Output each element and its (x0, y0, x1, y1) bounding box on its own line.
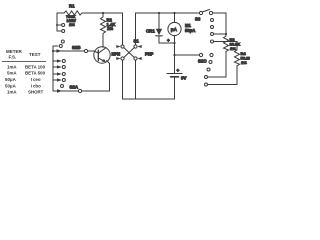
switch S1 BL contact (121, 57, 124, 60)
wire top-left rail segment (57, 12, 123, 14)
svg-text:BETA 100: BETA 100 (25, 65, 46, 70)
svg-text:5mA: 5mA (7, 71, 17, 76)
wire bottom return rail (123, 98, 175, 100)
switch S2 left contact row 2 (53, 66, 57, 68)
contact circle (62, 30, 65, 33)
svg-text:+: + (177, 68, 180, 73)
wire S2B wiper to base (53, 50, 94, 52)
switch S1 wiper arrow right top (137, 45, 141, 48)
wire stub to contact (57, 24, 62, 26)
node junction upper contact (56, 24, 58, 26)
wire bottom rail S2A (53, 90, 110, 92)
switch S1 BR contact (134, 57, 137, 60)
wire left lower bus vertical (52, 46, 54, 91)
wire S1 TR up (135, 13, 137, 45)
battery B1 lead bottom (174, 78, 176, 99)
svg-text:1%: 1% (241, 60, 247, 65)
svg-text:BETA 500: BETA 500 (25, 71, 46, 76)
resistor R3 (right upper) (224, 36, 229, 77)
diode CR1 lead top (158, 13, 160, 29)
transistor base lead (94, 51, 98, 53)
meter M1 lead bottom (174, 36, 176, 55)
meter M1 circle (168, 22, 181, 35)
diode CR1 lead bottom (159, 36, 175, 43)
transistor Q1 circle (94, 47, 110, 63)
contact circle S2C left (199, 53, 202, 56)
resistor R4 (right lower) (235, 50, 240, 85)
wire to top-right corner (213, 13, 226, 36)
switch S3 blade (202, 10, 209, 13)
diode CR1 triangle (156, 29, 162, 35)
node battery junction (173, 54, 175, 56)
svg-text:1%: 1% (69, 22, 75, 27)
switch S2C contact 1 (211, 19, 214, 22)
svg-text:S2B: S2B (72, 45, 81, 50)
meter M1 lead top (174, 13, 176, 22)
svg-text:METER: METER (6, 49, 23, 54)
svg-text:50μA: 50μA (185, 28, 195, 33)
switch S1 TR contact (134, 45, 137, 48)
switch S3 contact right (209, 11, 212, 14)
svg-text:CR1: CR1 (146, 29, 155, 34)
transistor base bar (97, 50, 99, 61)
battery B1 lead top (174, 55, 176, 73)
switch S2C contact 8 (205, 83, 208, 86)
svg-text:S1: S1 (134, 39, 140, 44)
switch S2C contact 5 (209, 61, 212, 64)
node R3 top junction (102, 12, 104, 14)
svg-text:50μA: 50μA (5, 84, 17, 89)
battery B1 long plate (167, 73, 182, 75)
diode CR1 bar (156, 35, 162, 37)
wire stub to contact (57, 30, 62, 32)
svg-text:TEST: TEST (29, 52, 41, 57)
switch S2C contact 4 (211, 40, 214, 43)
switch S2C contact 6 (207, 68, 210, 71)
svg-text:1mA: 1mA (7, 90, 17, 95)
switch S1 wiper arrow left top (116, 45, 120, 48)
contact circle S2C right (210, 53, 213, 56)
node diode junction (173, 42, 175, 44)
wire emitter down (107, 61, 110, 92)
wiper arrow S2A (57, 89, 62, 92)
switch S2 left contact row 3 (53, 73, 57, 75)
switch S3 contact left (199, 11, 202, 14)
node wiper junction (52, 50, 54, 52)
svg-text:SHORT: SHORT (28, 90, 44, 95)
wire S2C wiper (175, 54, 200, 56)
switch S1 cross diagonal 1 (124, 48, 135, 58)
wire S1 BR down (135, 60, 137, 99)
switch S1 wiper arrow right bottom (137, 57, 141, 60)
svg-text:PNP: PNP (145, 52, 154, 57)
svg-text:R1: R1 (69, 4, 75, 9)
transistor emitter (98, 58, 105, 62)
svg-text:S2A: S2A (70, 84, 79, 89)
contact circle S2A (78, 89, 81, 92)
svg-text:I ceo: I ceo (31, 77, 41, 82)
wire left upper vertical (56, 13, 58, 31)
svg-text:50μA: 50μA (5, 77, 17, 82)
resistor R1 (64, 11, 82, 15)
switch S1 cross diagonal 2 (124, 48, 135, 58)
emitter arrowhead (102, 59, 106, 62)
node meter top (173, 12, 175, 14)
wire R3 bottom to contact7 (208, 76, 226, 78)
svg-text:9V: 9V (181, 76, 186, 81)
svg-text:+: + (167, 38, 170, 43)
wire top rail right segment (136, 12, 200, 14)
wire contact3 to R3 (214, 33, 226, 35)
contact circle row 5 (61, 85, 64, 88)
node diode top (158, 12, 160, 14)
contact circle (62, 24, 65, 27)
node contact3 junction (225, 33, 227, 35)
svg-text:I cbo: I cbo (31, 84, 41, 89)
transistor collector (98, 48, 105, 53)
wire stub top of lower bus (53, 45, 58, 47)
switch S1 TL contact (121, 45, 124, 48)
switch S2 left contact row 4 (53, 79, 57, 81)
contact circle on base wire (84, 49, 87, 52)
contact circle (61, 40, 64, 43)
switch S2 left contact row 1 (53, 60, 57, 62)
wire S1 TL up (122, 13, 124, 45)
switch S1 wiper arrow left bottom (116, 57, 120, 60)
switch S2C contact 2 (211, 26, 214, 29)
svg-text:S2C: S2C (198, 59, 207, 64)
wire contact4 to R4 (214, 42, 237, 51)
resistor R2 (collector, vertical) (101, 13, 106, 47)
switch S2C contact 7 (205, 76, 208, 79)
svg-text:NPN: NPN (112, 52, 121, 57)
svg-text:S3: S3 (195, 17, 201, 22)
svg-text:1%: 1% (230, 46, 236, 51)
svg-text:F.S.: F.S. (9, 55, 17, 60)
svg-text:μA: μA (171, 27, 178, 32)
svg-text:1%: 1% (107, 26, 113, 31)
wire S1 BL down (122, 60, 124, 99)
wiper arrow S2B (57, 49, 62, 52)
svg-text:1mA: 1mA (7, 65, 17, 70)
wire R4 bottom to contact8 (208, 84, 237, 86)
contact circle (59, 45, 62, 48)
battery B1 short plate (171, 76, 179, 78)
table rule (2, 61, 46, 63)
switch S2C contact 3 (211, 33, 214, 36)
